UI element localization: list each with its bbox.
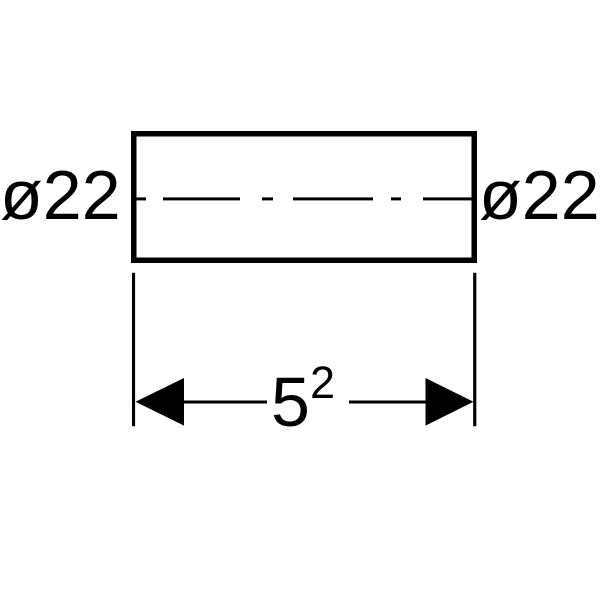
centerline dash 1 (stub at left wall) <box>136 197 146 200</box>
left arrowhead <box>136 378 185 426</box>
centerline dash 6 (long, ends at right wall) <box>423 197 473 200</box>
right arrowhead <box>426 378 474 426</box>
centerline dash 3 (dot) <box>262 197 273 200</box>
svg-text:ø22: ø22 <box>479 156 600 234</box>
centerline dash 2 (long) <box>163 197 240 200</box>
left extension line <box>132 273 135 426</box>
centerline dash 5 (dot) <box>391 197 401 200</box>
dimension line right segment <box>349 401 426 404</box>
right extension line <box>473 273 476 426</box>
svg-text:ø22: ø22 <box>0 156 121 234</box>
centerline dash 4 (long) <box>293 197 373 200</box>
svg-text:2: 2 <box>310 357 335 408</box>
tube body outline (rectangle) <box>134 134 475 261</box>
svg-text:5: 5 <box>271 363 310 441</box>
dimension line left segment <box>184 401 267 404</box>
